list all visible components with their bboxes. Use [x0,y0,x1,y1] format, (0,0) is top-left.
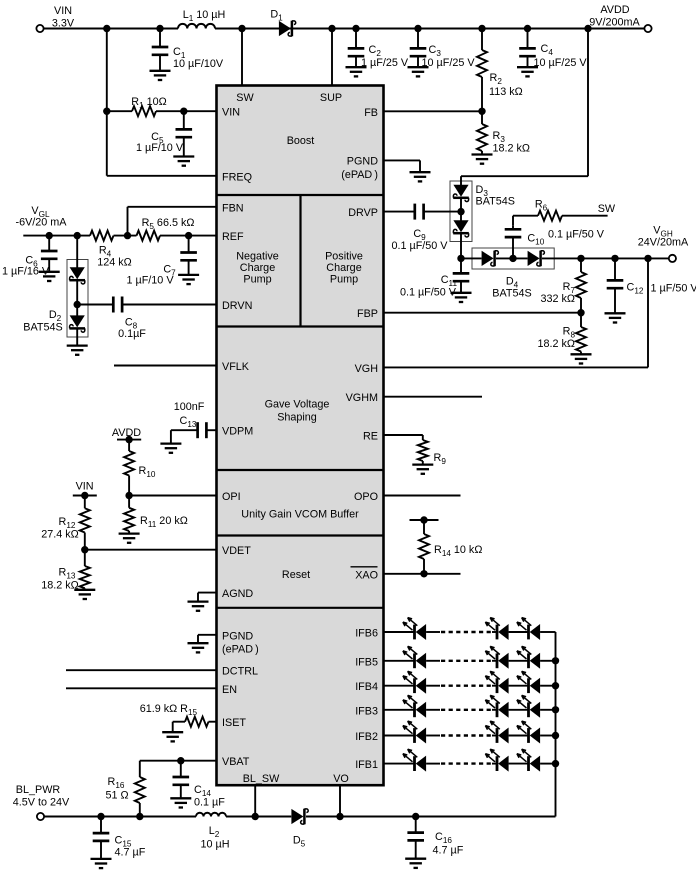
svg-text:FB: FB [364,107,378,119]
svg-text:0.1 µF/50 V: 0.1 µF/50 V [391,240,448,252]
svg-text:Unity Gain VCOM Buffer: Unity Gain VCOM Buffer [241,509,359,521]
svg-text:BAT54S: BAT54S [492,288,531,300]
svg-text:332 kΩ: 332 kΩ [541,293,575,305]
svg-text:Negative: Negative [236,251,279,263]
svg-text:Positive: Positive [325,251,363,263]
svg-text:1 µF/25 V: 1 µF/25 V [361,57,409,69]
svg-text:AVDD: AVDD [112,427,141,439]
svg-text:-6V/20 mA: -6V/20 mA [15,217,67,229]
svg-text:RE: RE [363,431,378,443]
svg-text:VGHM: VGHM [346,392,378,404]
svg-text:1 µF/10 V: 1 µF/10 V [126,275,174,287]
svg-text:Pump: Pump [330,274,358,286]
svg-text:IFB1: IFB1 [355,759,378,771]
svg-text:AGND: AGND [222,588,253,600]
svg-text:51 Ω: 51 Ω [105,790,128,802]
svg-text:VDET: VDET [222,545,251,557]
svg-text:(ePAD ): (ePAD ) [222,644,259,656]
svg-text:Gave Voltage: Gave Voltage [265,399,330,411]
svg-text:PGND: PGND [222,630,253,642]
svg-text:R14​ 10 kΩ: R14​ 10 kΩ [434,544,482,558]
svg-text:FBP: FBP [357,308,378,320]
svg-text:10 µF/25 V: 10 µF/25 V [422,57,476,69]
svg-text:113 kΩ: 113 kΩ [489,86,523,98]
svg-text:4.7 µF: 4.7 µF [115,847,146,859]
svg-text:R1​ 10Ω: R1​ 10Ω [131,96,166,110]
svg-text:(ePAD ): (ePAD ) [341,169,378,181]
svg-text:IFB4: IFB4 [355,681,378,693]
svg-text:10 µF/25 V: 10 µF/25 V [534,57,588,69]
svg-text:0.1 µF/50 V: 0.1 µF/50 V [400,287,457,299]
svg-text:VBAT: VBAT [222,756,250,768]
svg-text:1 µF/50 V: 1 µF/50 V [651,283,696,295]
svg-text:10 µH: 10 µH [200,839,229,851]
svg-text:EN: EN [222,684,237,696]
svg-text:VFLK: VFLK [222,361,250,373]
svg-text:FREQ: FREQ [222,171,252,183]
svg-text:124 kΩ: 124 kΩ [97,257,131,269]
svg-text:Charge: Charge [240,262,275,274]
svg-text:AVDD: AVDD [600,4,629,16]
svg-text:ISET: ISET [222,717,246,729]
svg-text:Charge: Charge [326,262,361,274]
svg-text:1 µF/16 V: 1 µF/16 V [2,266,50,278]
svg-text:VIN: VIN [76,481,94,493]
svg-text:FBN: FBN [222,203,244,215]
svg-text:VIN: VIN [222,107,240,119]
svg-text:XAO: XAO [355,569,378,581]
svg-text:BAT54S: BAT54S [23,322,62,334]
svg-text:4.5V to 24V: 4.5V to 24V [13,797,70,809]
svg-text:VDPM: VDPM [222,426,253,438]
svg-text:Boost: Boost [287,135,315,147]
svg-text:0.1 µF/50 V: 0.1 µF/50 V [548,229,605,241]
svg-text:OPI: OPI [222,491,241,503]
svg-text:0.1µF: 0.1µF [118,328,146,340]
svg-text:SW: SW [598,203,616,215]
svg-text:OPO: OPO [354,491,378,503]
svg-text:VIN: VIN [54,5,72,17]
svg-text:1 µF/10 V: 1 µF/10 V [136,142,184,154]
svg-text:0.1 µF: 0.1 µF [194,797,225,809]
svg-text:10 µF/10V: 10 µF/10V [173,58,224,70]
svg-text:18.2 kΩ: 18.2 kΩ [41,580,78,592]
svg-text:Shaping: Shaping [277,412,317,424]
svg-text:18.2 kΩ: 18.2 kΩ [538,338,575,350]
svg-text:REF: REF [222,231,244,243]
svg-text:SW: SW [236,92,254,104]
svg-text:BAT54S: BAT54S [476,196,515,208]
svg-text:IFB2: IFB2 [355,731,378,743]
svg-text:R11​ 20 kΩ: R11​ 20 kΩ [140,515,188,529]
svg-text:DRVP: DRVP [348,207,378,219]
svg-text:IFB3: IFB3 [355,705,378,717]
svg-text:3.3V: 3.3V [52,18,75,30]
svg-text:27.4 kΩ: 27.4 kΩ [41,529,78,541]
svg-text:9V/200mA: 9V/200mA [589,17,640,29]
svg-text:BL_PWR: BL_PWR [16,784,61,796]
svg-text:BL_SW: BL_SW [243,773,280,785]
svg-text:Reset: Reset [282,569,310,581]
svg-text:IFB5: IFB5 [355,656,378,668]
svg-text:100nF: 100nF [174,401,205,413]
svg-text:VO: VO [333,773,349,785]
svg-text:18.2 kΩ: 18.2 kΩ [493,143,530,155]
svg-text:DRVN: DRVN [222,300,252,312]
svg-text:PGND: PGND [347,156,378,168]
svg-text:24V/20mA: 24V/20mA [638,237,689,249]
svg-text:VGH: VGH [355,363,378,375]
svg-text:SUP: SUP [320,92,342,104]
svg-text:4.7 µF: 4.7 µF [433,845,464,857]
svg-text:Pump: Pump [243,274,271,286]
svg-text:DCTRL: DCTRL [222,666,258,678]
svg-text:IFB6: IFB6 [355,628,378,640]
